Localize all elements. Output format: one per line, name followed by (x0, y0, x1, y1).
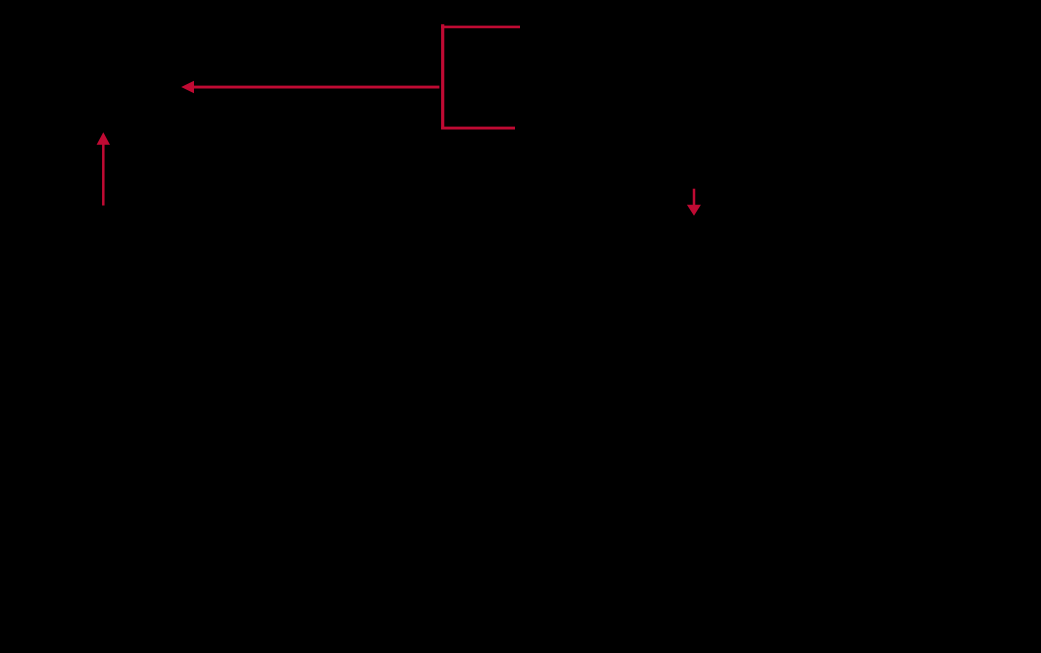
wire: arrow A3 stem (693, 189, 696, 206)
wire: bracket vertical segment (441, 24, 444, 129)
arrowhead A1 (181, 81, 194, 94)
wire: arrow A2 stem (102, 144, 105, 206)
wire: arrow A1 stem (193, 86, 440, 89)
arrow A2: vertical arrow pointing up (97, 132, 110, 205)
wire: bracket bottom horizontal segment (441, 127, 515, 130)
wire: bracket top horizontal segment (441, 26, 520, 29)
arrow A3: short vertical arrow pointing down (687, 189, 701, 216)
highlight bracket (component outline, open right side) (441, 24, 520, 129)
arrowhead A2 (97, 132, 110, 145)
arrow A1: long horizontal arrow pointing left (181, 81, 439, 94)
arrowhead A3 (687, 205, 701, 216)
